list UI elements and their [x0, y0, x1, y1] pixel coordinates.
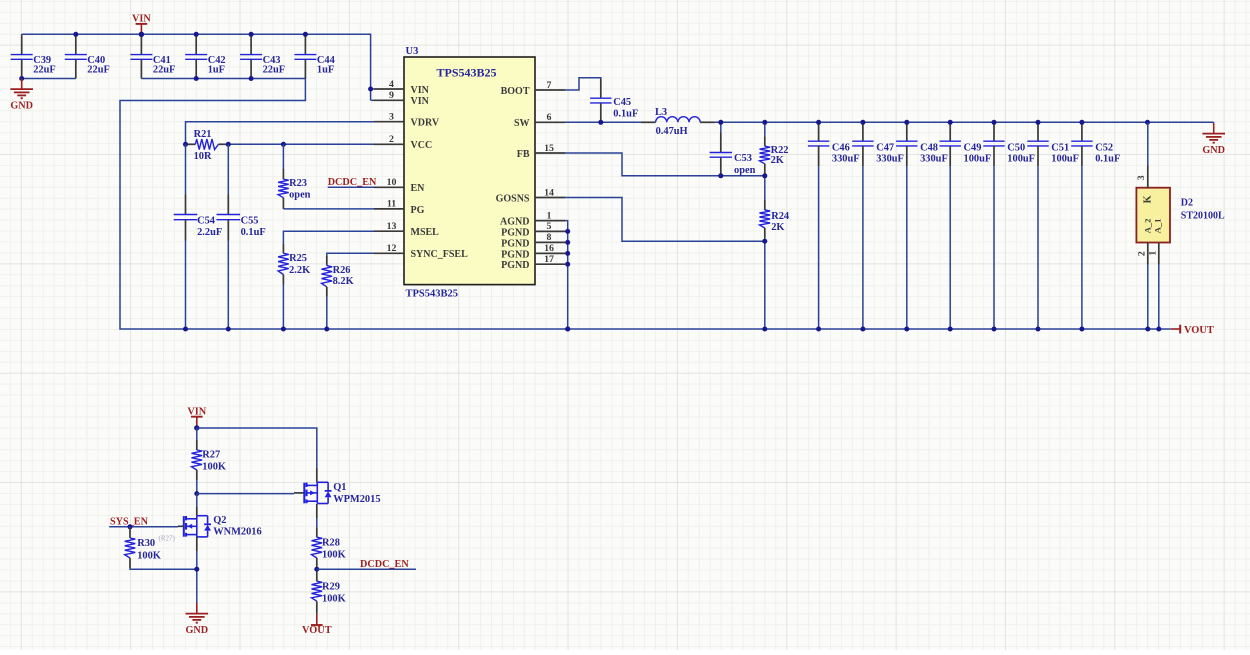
svg-text:R21: R21 [194, 129, 212, 140]
svg-text:5: 5 [547, 221, 552, 232]
svg-text:22uF: 22uF [153, 65, 176, 76]
svg-text:C54: C54 [197, 215, 215, 226]
svg-text:A_2: A_2 [1142, 219, 1152, 234]
svg-text:330uF: 330uF [876, 154, 904, 165]
svg-text:PGND: PGND [501, 227, 529, 238]
svg-text:PGND: PGND [501, 260, 529, 271]
svg-text:D2: D2 [1181, 198, 1193, 209]
svg-text:R29: R29 [322, 581, 340, 592]
svg-text:EN: EN [411, 183, 426, 194]
svg-text:2K: 2K [771, 155, 784, 166]
svg-text:100uF: 100uF [1007, 154, 1035, 165]
svg-text:17: 17 [544, 254, 554, 265]
svg-text:2.2uF: 2.2uF [197, 227, 222, 238]
svg-text:12: 12 [387, 243, 397, 254]
svg-text:DCDC_EN: DCDC_EN [360, 559, 409, 570]
svg-text:11: 11 [387, 199, 396, 210]
svg-text:C45: C45 [613, 97, 631, 108]
svg-text:VIN: VIN [187, 407, 206, 418]
svg-text:22uF: 22uF [33, 65, 56, 76]
svg-text:L3: L3 [655, 107, 667, 118]
svg-text:1uF: 1uF [317, 65, 334, 76]
svg-text:330uF: 330uF [920, 154, 948, 165]
svg-text:6: 6 [547, 112, 552, 123]
svg-text:R30: R30 [137, 538, 155, 549]
svg-text:TPS543B25: TPS543B25 [406, 289, 459, 300]
svg-text:R24: R24 [771, 211, 789, 222]
svg-text:C51: C51 [1051, 142, 1069, 153]
svg-text:0.1uF: 0.1uF [241, 227, 266, 238]
svg-text:SYNC_FSEL: SYNC_FSEL [411, 249, 469, 260]
svg-text:0.1uF: 0.1uF [613, 108, 638, 119]
svg-text:FB: FB [517, 149, 530, 160]
svg-text:1: 1 [1148, 251, 1159, 256]
svg-text:C47: C47 [876, 142, 894, 153]
svg-text:C49: C49 [964, 142, 982, 153]
svg-text:C48: C48 [920, 142, 938, 153]
svg-text:VOUT: VOUT [302, 625, 332, 636]
svg-text:100K: 100K [322, 593, 346, 604]
svg-text:Q1: Q1 [333, 482, 346, 493]
svg-text:7: 7 [547, 80, 552, 91]
svg-text:C53: C53 [734, 153, 752, 164]
svg-text:8: 8 [547, 232, 552, 243]
svg-text:100K: 100K [202, 462, 226, 473]
svg-text:GND: GND [10, 100, 33, 111]
svg-text:R23: R23 [289, 178, 307, 189]
svg-text:VIN: VIN [132, 14, 151, 25]
svg-text:14: 14 [544, 187, 554, 198]
svg-text:Q2: Q2 [213, 515, 226, 526]
svg-text:100uF: 100uF [1051, 154, 1079, 165]
svg-text:PGND: PGND [501, 238, 529, 249]
svg-text:R26: R26 [333, 265, 351, 276]
svg-text:A_1: A_1 [1152, 219, 1162, 234]
svg-text:3: 3 [1136, 175, 1147, 180]
svg-text:AGND: AGND [500, 217, 529, 228]
svg-text:ST20100L: ST20100L [1181, 210, 1225, 221]
svg-text:1: 1 [547, 210, 552, 221]
svg-text:1uF: 1uF [208, 65, 225, 76]
svg-text:8.2K: 8.2K [333, 276, 354, 287]
svg-text:3: 3 [389, 112, 394, 123]
svg-text:22uF: 22uF [263, 65, 286, 76]
svg-text:K: K [1143, 195, 1154, 203]
svg-text:WNM2016: WNM2016 [213, 527, 261, 538]
svg-text:(R27): (R27) [159, 535, 176, 543]
svg-text:9: 9 [389, 90, 394, 101]
svg-text:PG: PG [411, 205, 425, 216]
svg-text:VDRV: VDRV [411, 118, 440, 129]
svg-text:2.2K: 2.2K [289, 265, 310, 276]
svg-text:100K: 100K [322, 549, 346, 560]
svg-text:TPS543B25: TPS543B25 [436, 66, 496, 80]
svg-text:open: open [289, 189, 311, 200]
svg-text:WPM2015: WPM2015 [333, 494, 380, 505]
svg-text:MSEL: MSEL [411, 227, 440, 238]
svg-text:GOSNS: GOSNS [496, 193, 530, 204]
svg-text:10: 10 [387, 177, 397, 188]
svg-text:R27: R27 [202, 450, 220, 461]
svg-text:10R: 10R [194, 151, 212, 162]
svg-text:0.1uF: 0.1uF [1095, 154, 1120, 165]
svg-text:C46: C46 [832, 142, 850, 153]
svg-text:C50: C50 [1007, 142, 1025, 153]
svg-text:2: 2 [1136, 251, 1147, 256]
svg-text:4: 4 [389, 79, 394, 90]
svg-text:U3: U3 [406, 46, 419, 57]
svg-text:C52: C52 [1095, 142, 1113, 153]
svg-text:VIN: VIN [411, 96, 430, 107]
svg-text:VCC: VCC [411, 140, 433, 151]
svg-text:15: 15 [544, 143, 554, 154]
svg-text:0.47uH: 0.47uH [656, 126, 688, 137]
svg-text:2: 2 [389, 134, 394, 145]
svg-text:R22: R22 [771, 145, 789, 156]
svg-text:100K: 100K [137, 550, 161, 561]
svg-text:GND: GND [1202, 145, 1225, 156]
svg-text:16: 16 [544, 243, 554, 254]
svg-text:100uF: 100uF [964, 154, 992, 165]
svg-text:DCDC_EN: DCDC_EN [328, 177, 377, 188]
svg-text:GND: GND [185, 625, 208, 636]
svg-text:330uF: 330uF [832, 154, 860, 165]
svg-text:SW: SW [514, 118, 530, 129]
svg-text:R28: R28 [322, 537, 340, 548]
svg-text:C55: C55 [241, 215, 259, 226]
svg-text:R25: R25 [289, 253, 307, 264]
svg-text:VOUT: VOUT [1184, 325, 1214, 336]
svg-text:13: 13 [387, 221, 397, 232]
svg-text:VIN: VIN [411, 85, 430, 96]
svg-text:2K: 2K [771, 222, 784, 233]
svg-text:open: open [734, 165, 756, 176]
svg-text:BOOT: BOOT [501, 86, 530, 97]
svg-text:22uF: 22uF [87, 65, 110, 76]
svg-text:PGND: PGND [501, 249, 529, 260]
